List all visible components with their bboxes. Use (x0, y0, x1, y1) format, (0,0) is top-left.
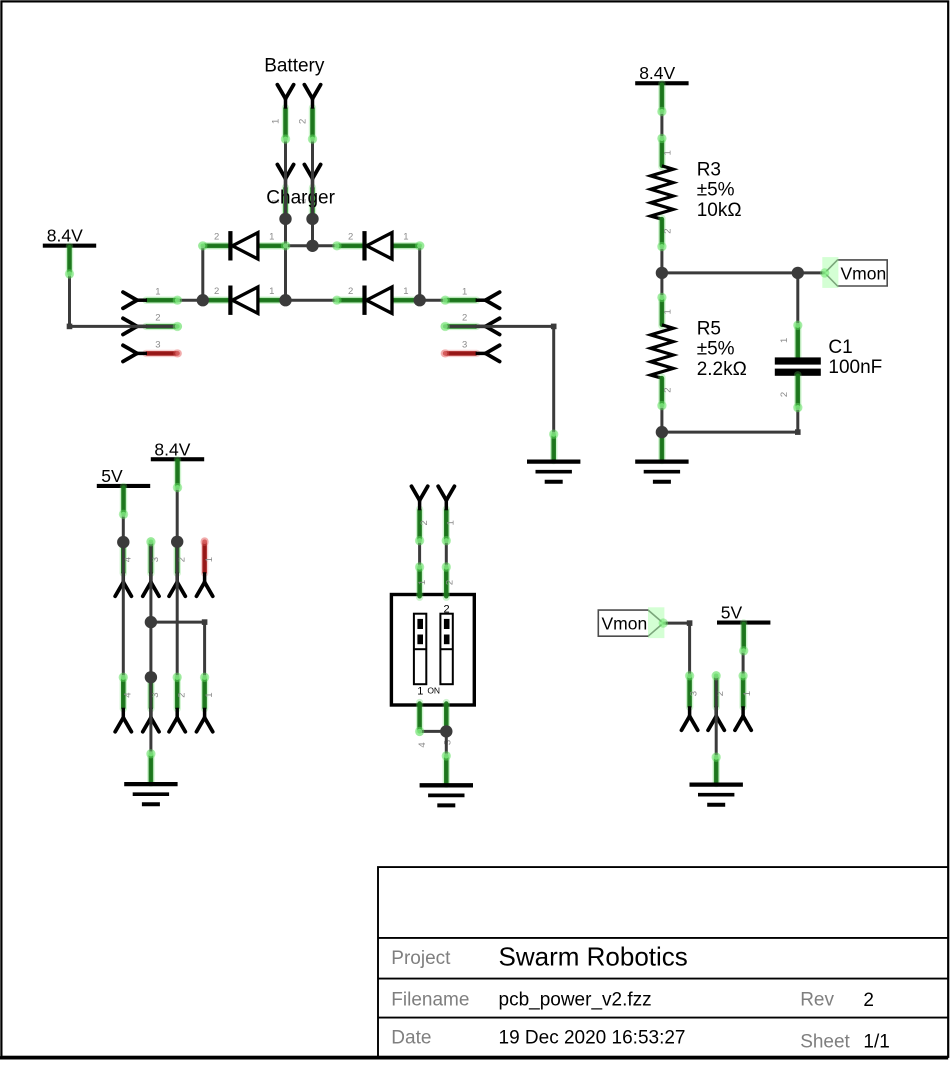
svg-text:2: 2 (419, 520, 430, 525)
title block box (378, 867, 948, 1056)
wire charger 1 to bottom bus (284, 219, 287, 300)
wire J3 pin 2 to J4 pin 2 (176, 542, 179, 678)
svg-text:1: 1 (662, 309, 673, 314)
junction charger pin 1 (279, 213, 291, 225)
svg-text:10kΩ: 10kΩ (697, 200, 742, 221)
wire 5V to J6 pin 1 (742, 651, 745, 676)
ground (battery bus) (527, 433, 580, 482)
svg-text:R3: R3 (697, 159, 721, 180)
page frame bottom border (0, 1056, 948, 1059)
svg-text:2: 2 (348, 231, 353, 242)
power flag 5V (mid left) (97, 466, 150, 515)
ground (mid left) (124, 753, 177, 804)
power flag 5V (bottom right) (717, 603, 770, 652)
connector J1 pin 1 (123, 286, 178, 308)
wire gnd node to J4 pin 3 (149, 622, 152, 677)
svg-text:2: 2 (779, 392, 790, 397)
svg-text:1: 1 (417, 580, 428, 585)
resistor R5 (651, 296, 674, 406)
ground (bottom right) (690, 756, 743, 805)
junction Vmon C1 (792, 267, 804, 279)
svg-text:2: 2 (297, 119, 308, 124)
junction node Vmon (656, 267, 668, 279)
svg-text:3: 3 (155, 340, 160, 351)
power flag 8.4V (left) (43, 226, 96, 275)
power flag 8.4V (top right) (635, 63, 688, 112)
svg-text:Swarm Robotics: Swarm Robotics (499, 942, 688, 972)
wire J4 pin 3 to ground (149, 677, 152, 754)
resistor R3 value label (697, 159, 742, 221)
svg-text:1: 1 (779, 338, 790, 343)
connector J2 pin 2 (444, 313, 499, 335)
diode D3 (336, 231, 421, 260)
svg-text:5V: 5V (101, 466, 123, 486)
connector J3 pin 4 (115, 541, 133, 596)
svg-text:1: 1 (403, 286, 408, 297)
svg-text:1/1: 1/1 (863, 1032, 889, 1053)
wire 8.4V to R3 (660, 112, 663, 139)
svg-text:4: 4 (417, 742, 428, 747)
junction charger pin 2 (306, 213, 318, 225)
junction bottom bus right (414, 294, 426, 306)
junction RC ground (656, 426, 668, 438)
svg-text:100nF: 100nF (828, 357, 882, 378)
junction 8.4V J3 pin 2 (171, 536, 183, 548)
junction top bus (306, 240, 318, 252)
svg-text:1: 1 (446, 520, 457, 525)
svg-text:1: 1 (270, 119, 281, 124)
connector J4 pin 1 (197, 676, 215, 731)
wire J5 pin 1 to switch pin 2 (445, 541, 448, 567)
svg-text:8.4V: 8.4V (154, 439, 190, 459)
wire D3-D4 anodes (418, 246, 421, 300)
switch S1 body (391, 595, 474, 706)
junction switch gnd (440, 725, 452, 737)
wire node Vmon horizontal (662, 271, 798, 274)
wire bend (551, 324, 557, 330)
wire 8.4V left to J1 pin 2 (70, 274, 178, 327)
wire battery 2 to charger 2 (311, 139, 314, 219)
switch S1 pin 4 (417, 703, 428, 748)
svg-text:2: 2 (662, 387, 673, 392)
power flag 8.4V (mid left) (151, 439, 204, 488)
svg-text:Charger: Charger (266, 188, 335, 209)
wire D4 to J2 pin 1 (420, 299, 446, 302)
junction J4 pin 3 (145, 671, 157, 683)
switch S1 pin 3 (442, 703, 453, 746)
wire J3 pin 3 to gnd node (149, 542, 152, 622)
wire C1 to ground node (662, 408, 798, 433)
svg-text:3: 3 (689, 691, 700, 696)
connector J1 pin 3 (123, 340, 178, 362)
svg-text:2: 2 (176, 692, 187, 697)
junction bottom bus battery (279, 294, 291, 306)
junction mid-left gnd (145, 616, 157, 628)
title block Date row (391, 1028, 890, 1053)
connector J3 pin 2 (169, 541, 187, 596)
svg-text:Filename: Filename (391, 990, 469, 1011)
svg-text:1: 1 (269, 231, 274, 242)
svg-text:2: 2 (462, 313, 467, 324)
switch S1 pin 2 (445, 566, 456, 597)
wire J2 pin 2 to ground (443, 326, 553, 434)
svg-text:3: 3 (462, 340, 467, 351)
connector J2 pin 3 (444, 340, 499, 362)
wire switch pin 4 to pin 3 (420, 730, 447, 733)
wire R5 to ground node (660, 406, 663, 433)
connector J4 pin 3 (143, 676, 161, 731)
svg-text:C1: C1 (828, 337, 852, 358)
wire J3 pin 4 to J4 pin 4 (122, 542, 125, 678)
connector J4 pin 4 (115, 676, 133, 731)
svg-text:R5: R5 (697, 318, 721, 339)
capacitor C1 (775, 324, 821, 408)
svg-text:Battery: Battery (264, 56, 325, 77)
svg-text:2: 2 (214, 231, 219, 242)
connector Battery pin 1 (270, 85, 293, 140)
svg-text:Rev: Rev (800, 990, 834, 1011)
svg-text:1: 1 (204, 692, 215, 697)
svg-text:1: 1 (742, 691, 753, 696)
capacitor C1 value label (828, 337, 882, 378)
svg-text:1: 1 (462, 286, 467, 297)
wire bottom bus (286, 299, 337, 302)
wire switch to ground (445, 731, 448, 756)
svg-text:1: 1 (662, 150, 673, 155)
diode D4 (336, 286, 421, 315)
wire node Vmon to R5 (660, 273, 663, 298)
wire Vmon node to C1 (796, 273, 799, 325)
svg-text:Vmon: Vmon (841, 263, 887, 283)
title block Filename row (391, 990, 874, 1012)
wire J1 pin 1 to D2 (177, 299, 202, 302)
connector J2 pin 1 (444, 286, 499, 308)
svg-text:2: 2 (662, 228, 673, 233)
connector J6 pin 2 (708, 675, 726, 730)
connector Battery pin 2 (297, 85, 320, 140)
connector Charger pin 2 (297, 165, 320, 220)
wire battery 1 to charger 1 (284, 139, 287, 219)
svg-text:4: 4 (123, 692, 134, 697)
wire to J4 pin 1 (203, 622, 206, 677)
svg-text:Sheet: Sheet (800, 1032, 850, 1053)
connector J1 pin 2 (123, 313, 178, 335)
wire bend (202, 619, 208, 625)
svg-text:2: 2 (348, 286, 353, 297)
svg-text:ON: ON (427, 685, 440, 695)
connector J6 pin 1 (735, 675, 753, 730)
wire D1-D2 cathodes (201, 246, 204, 300)
wire bend (687, 620, 693, 626)
wire bend (795, 429, 801, 435)
wire J6 pin 2 to ground (715, 676, 718, 757)
wire gnd node horizontal (151, 621, 205, 624)
svg-text:±5%: ±5% (697, 339, 735, 360)
switch S1 pin 1 (417, 566, 428, 597)
diode D1 (202, 231, 287, 260)
connector Charger pin 1 (270, 165, 293, 220)
resistor R3 (651, 137, 674, 247)
svg-text:Project: Project (391, 948, 451, 969)
svg-text:Date: Date (391, 1028, 431, 1049)
connector J6 pin 3 (682, 675, 700, 730)
wire top bus (286, 244, 337, 247)
junction bottom bus left (197, 294, 209, 306)
wire to Vmon label (798, 271, 825, 274)
connector J4 pin 2 (169, 676, 187, 731)
terminal glows (65, 107, 830, 762)
ground (switch) (420, 755, 473, 806)
svg-text:2: 2 (863, 990, 874, 1011)
wire 8.4V mid to J3 pin 2 (176, 488, 179, 542)
svg-text:1: 1 (417, 686, 423, 698)
wire 5V mid to J3 pin 4 (122, 514, 125, 542)
svg-text:1: 1 (403, 231, 408, 242)
svg-text:1: 1 (155, 286, 160, 297)
svg-text:5V: 5V (721, 603, 743, 623)
resistor R5 value label (697, 318, 747, 380)
connector J3 pin 3 (143, 541, 161, 596)
diode D2 (202, 286, 287, 315)
wire J5 pin 2 to switch pin 1 (418, 541, 421, 567)
connector J5 pin 2 (412, 486, 430, 541)
svg-text:2: 2 (444, 604, 450, 616)
svg-text:2: 2 (214, 286, 219, 297)
svg-text:1: 1 (269, 286, 274, 297)
wire charger 2 to top bus (311, 219, 314, 246)
net label Vmon (top right) (822, 257, 887, 288)
wire bend (67, 324, 73, 330)
svg-text:2.2kΩ: 2.2kΩ (697, 359, 747, 380)
connector J5 pin 1 (438, 486, 456, 541)
junction 5V J3 pin 4 (117, 536, 129, 548)
svg-text:1: 1 (204, 557, 215, 562)
title block Project row (391, 942, 687, 972)
wire R3 to node Vmon (660, 247, 663, 273)
net label Vmon (bottom) (598, 607, 664, 638)
svg-text:8.4V: 8.4V (47, 226, 83, 246)
svg-text:±5%: ±5% (697, 180, 735, 201)
svg-text:8.4V: 8.4V (639, 63, 675, 83)
svg-text:2: 2 (445, 580, 456, 585)
connector J3 pin 1 (197, 541, 215, 596)
svg-text:2: 2 (155, 313, 160, 324)
ground (RC divider) (635, 431, 688, 482)
svg-text:Vmon: Vmon (602, 614, 648, 634)
svg-text:pcb_power_v2.fzz: pcb_power_v2.fzz (499, 990, 652, 1011)
svg-text:19 Dec 2020 16:53:27: 19 Dec 2020 16:53:27 (499, 1028, 686, 1049)
wire Vmon label to J6 pin 3 (663, 623, 689, 676)
